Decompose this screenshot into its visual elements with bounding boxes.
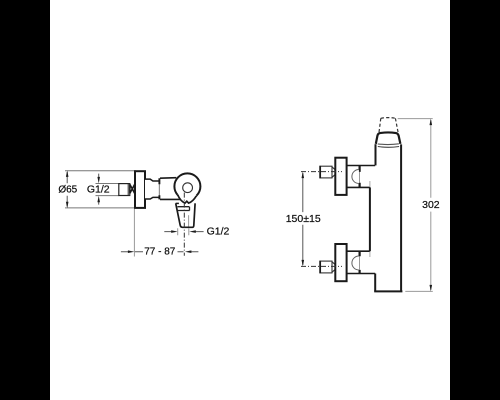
svg-text:77 - 87: 77 - 87	[144, 247, 176, 258]
svg-text:302: 302	[422, 199, 440, 211]
svg-text:150±15: 150±15	[286, 213, 321, 225]
svg-text:G1/2: G1/2	[87, 183, 110, 195]
svg-text:Ø65: Ø65	[58, 184, 77, 195]
svg-text:G1/2: G1/2	[207, 226, 230, 238]
